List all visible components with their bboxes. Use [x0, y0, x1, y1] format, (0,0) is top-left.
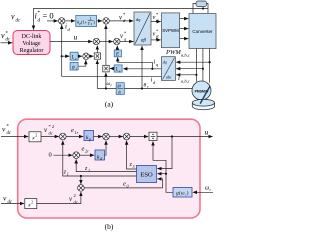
wire: kp to sum 2 — [94, 136, 103, 138]
wire: i_d feedback row and up to sum d — [62, 25, 162, 77]
node: vdc tap dot — [202, 7, 204, 9]
wire: u feedback into ESO — [157, 137, 172, 169]
divider box — [149, 132, 157, 140]
multiplier box x2 — [103, 65, 109, 72]
resistor R (DC load) — [196, 1, 207, 7]
ESO box — [137, 166, 157, 183]
wire: sum C to x1 — [89, 55, 93, 57]
svg-text:* 2: * 2 — [49, 124, 55, 129]
wire: kd up into sum 2 — [105, 141, 107, 156]
wire: squared ref to sum 1 — [41, 136, 59, 138]
wire: omega into x2 bottom — [105, 73, 107, 89]
summing junction A (u row) — [93, 38, 99, 44]
wire: sum3 to divider — [130, 136, 148, 138]
ADRC pink container — [18, 119, 200, 218]
svg-text:abc: abc — [166, 76, 172, 80]
svg-text:(b): (b) — [105, 222, 114, 231]
wire: multiplier x2 output up to sum d2 — [105, 25, 107, 65]
d(theta)/dt box — [116, 83, 124, 95]
svg-text:dc: dc — [16, 19, 22, 24]
svg-text:= 0: = 0 — [43, 11, 54, 21]
wire: DC link top loop with resistor — [193, 4, 208, 14]
svg-text:v: v — [1, 31, 5, 40]
turbine cylinder base — [192, 103, 214, 110]
wire: L box to multiplier x2 — [110, 68, 114, 70]
wire: v*q into dq/ab transform — [120, 41, 133, 43]
squarer box (bottom) — [25, 199, 37, 209]
svg-text:SVPWM: SVPWM — [162, 28, 179, 33]
L box (Lq) — [114, 65, 122, 72]
svg-text:2: 2 — [35, 134, 37, 138]
wire: sum2 to sum3 — [109, 136, 123, 138]
summing junction 4 — [73, 152, 80, 159]
wire: i*d to sum d — [47, 20, 58, 22]
svg-text:1: 1 — [90, 17, 92, 21]
svg-text:*: * — [156, 12, 158, 17]
wire: omega row from dtheta box — [97, 88, 116, 90]
transform dq->alphabeta box U2 — [134, 12, 151, 45]
svg-text:i: i — [178, 74, 180, 82]
svg-text:Voltage: Voltage — [22, 41, 41, 47]
wire: i_q output with jog, to E box and L box — [118, 57, 162, 69]
svg-text:u: u — [205, 128, 209, 137]
wire: e1 to kp — [66, 136, 83, 138]
summing junction B (u row) — [114, 38, 120, 44]
multiplier box x1 — [94, 53, 100, 59]
wire: psi_f up into sum C bottom — [78, 60, 86, 66]
E box (back-emf const) — [114, 50, 121, 57]
wires: PWM gate signals — [180, 19, 189, 39]
g(omega_r) box — [173, 188, 192, 198]
wire: omega_r into g box — [193, 191, 213, 193]
svg-text:u: u — [74, 33, 78, 42]
wire: E box up into sum B — [116, 46, 118, 50]
wire: g(wr) output to divider and ESO — [153, 141, 173, 192]
svg-text:*: * — [156, 28, 158, 33]
summing junction d2 (v*d) — [103, 18, 109, 24]
svg-text:dθ: dθ — [117, 85, 121, 89]
svg-text:E: E — [115, 53, 119, 58]
wire: Ld to sum C — [78, 55, 82, 57]
svg-text:Converter: Converter — [192, 29, 213, 34]
svg-text:ESO: ESO — [140, 172, 153, 179]
svg-text:dc: dc — [6, 38, 12, 43]
wires: current measurement taps into abc/dq — [176, 62, 210, 75]
wire: z3 from ESO to sum 3 — [127, 141, 137, 169]
svg-text:3: 3 — [133, 164, 135, 169]
svg-text:p: p — [88, 138, 91, 142]
psi_f box — [70, 62, 78, 70]
wire: vdc sense rail from DC bus to regulator — [34, 9, 209, 30]
svg-text:dc: dc — [74, 200, 78, 205]
svg-text:DC-link: DC-link — [22, 34, 42, 40]
wire: v*dc arrow into regulator — [1, 42, 13, 44]
svg-text:dq: dq — [136, 17, 141, 22]
summing junction d (d-axis error) — [59, 18, 65, 24]
wire: PI to sum d2 — [97, 20, 103, 22]
svg-text:PWM: PWM — [165, 49, 181, 56]
wire: b0 branch into ESO — [157, 173, 166, 175]
transform abc->dq box U3 — [162, 57, 176, 81]
svg-text:d: d — [38, 18, 41, 24]
svg-text:(a): (a) — [105, 100, 114, 109]
svg-text:0: 0 — [49, 152, 52, 159]
wire: e0 from sum5 to ESO right side — [84, 179, 162, 188]
svg-text:T s: T s — [88, 22, 93, 26]
wire: x1 output up to sum A — [96, 46, 98, 53]
wire: sum d to PI box — [65, 20, 75, 22]
kd box — [95, 150, 105, 160]
svg-text:v: v — [11, 12, 15, 21]
wire: e2 to kd — [80, 154, 95, 156]
svg-text:d: d — [100, 157, 102, 161]
SVPWM box — [161, 13, 179, 48]
svg-text:Regulator: Regulator — [20, 48, 44, 54]
wire: v*beta to SVPWM — [151, 39, 161, 41]
svg-text:(1+: (1+ — [81, 19, 88, 24]
wire: sum A to sum B — [100, 41, 113, 43]
shaft — [200, 86, 210, 103]
Ld box — [70, 52, 78, 60]
wire: v*alpha to SVPWM — [151, 21, 161, 23]
svg-text:dc: dc — [49, 131, 53, 136]
wire: z1 branch down to sum 5 — [80, 176, 82, 184]
wire: omega into x1 bottom — [96, 60, 98, 89]
svg-text:1: 1 — [67, 172, 69, 177]
Converter box — [189, 14, 216, 49]
svg-text:1r: 1r — [75, 130, 79, 135]
svg-text:2r: 2r — [85, 149, 89, 154]
wire: theta row from machine to dtheta box — [124, 88, 192, 90]
svg-text:2: 2 — [88, 168, 90, 173]
wire: vdc^2 to sum 5 — [37, 192, 81, 204]
wire: u line from regulator to sum A — [50, 41, 92, 43]
wire: z2 from ESO to sum 4 — [76, 159, 136, 171]
svg-text:2: 2 — [74, 193, 76, 198]
wire: v*dc into squarer — [1, 136, 28, 138]
summing junction 2 — [103, 133, 110, 140]
svg-text:q: q — [156, 62, 158, 67]
squarer box (top) — [29, 132, 41, 142]
svg-text:2: 2 — [31, 200, 33, 204]
svg-text:*: * — [38, 10, 41, 16]
svg-text:αβ: αβ — [141, 39, 147, 44]
wire: 0 to sum 4 — [54, 154, 73, 156]
wire: z1 from ESO to sum 1 — [63, 141, 137, 176]
summing junction 5 — [78, 185, 85, 192]
DC-link Voltage Regulator box — [13, 31, 50, 55]
PI controller box (d axis) — [76, 16, 97, 27]
summing junction 1 — [60, 133, 67, 140]
wire: v*d into transform — [109, 20, 133, 22]
wires: three phase lines converter to machine — [196, 49, 209, 83]
wire: u output of (b) — [157, 136, 213, 138]
wire: theta branch up into alphabeta transform — [141, 46, 143, 89]
kp box — [84, 131, 94, 141]
wire: id branch into Ld — [62, 55, 70, 57]
svg-text:dq: dq — [163, 61, 167, 65]
PMSM/G machine — [192, 81, 211, 100]
wire: vdc into squarer 2 — [1, 203, 24, 205]
summing junction 3 — [123, 133, 130, 140]
summing junction C (Ld id + psi) — [83, 53, 89, 59]
